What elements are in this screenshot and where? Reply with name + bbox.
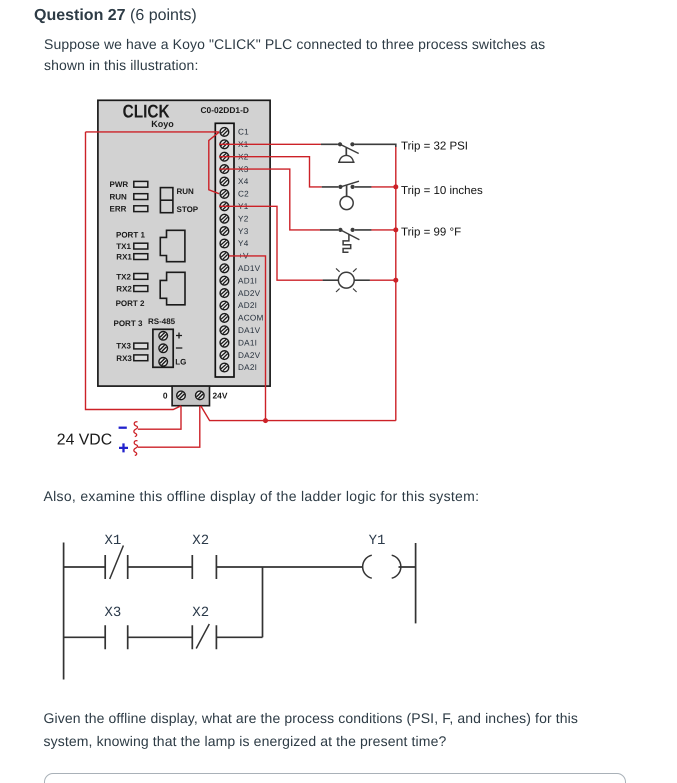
svg-text:AD2I: AD2I [238,301,257,310]
wire: +V terminal to bottom power bus [229,256,266,421]
junction dot lamp [393,278,398,283]
svg-text:DA1V: DA1V [238,326,261,335]
svg-text:RX1: RX1 [116,253,132,262]
svg-text:–: – [176,340,183,355]
branch wire joining rung 2 to rung 1 [262,567,264,637]
ladder left power rail [63,543,65,680]
contact X2 normally-open (rung 1) [192,533,216,579]
PORT 2 RJ jack with TX2/RX2 LEDs [116,272,185,308]
contact X3 normally-open [105,605,128,649]
wire: 24VDC positive lead to 24V terminal [138,406,200,447]
svg-text:24V: 24V [213,390,228,400]
RUN/STOP switch [160,187,198,214]
paragraph 1 [44,34,545,77]
24V power terminal block [163,386,228,406]
svg-text:X4: X4 [238,177,249,186]
svg-text:RUN: RUN [177,187,195,196]
wire: C1-C2 jumper bracket [209,132,219,194]
wire: level switch to rail [371,186,396,188]
PORT 1 RJ jack with TX1/RX1 LEDs [116,230,185,261]
paragraph 2 [44,488,480,504]
rung 2 wire segments [64,636,263,638]
svg-text:Y1: Y1 [369,533,386,549]
wire: temp switch to rail [371,229,396,231]
svg-text:RX3: RX3 [116,354,132,363]
contact X1 normally-closed [105,533,128,579]
svg-text:Y4: Y4 [238,239,249,248]
svg-text:AD1V: AD1V [238,264,261,273]
svg-text:0: 0 [163,390,168,400]
24VDC negative lead squiggle [134,422,138,437]
svg-text:TX3: TX3 [116,341,131,350]
PORT 3 RS-485 terminal block [114,317,187,367]
temperature switch (X3) [320,228,371,253]
question header [34,7,197,25]
svg-text:ACOM: ACOM [238,314,264,323]
svg-text:C0-02DD1-D: C0-02DD1-D [201,105,249,115]
minus polarity mark [119,427,127,429]
svg-text:ERR: ERR [110,205,127,214]
wire: X1 input [219,143,321,145]
svg-text:AD2V: AD2V [238,289,261,298]
answer box [44,773,626,783]
svg-text:X3: X3 [105,605,122,621]
svg-text:Trip = 32 PSI: Trip = 32 PSI [401,141,468,153]
PLC module body (Koyo CLICK C0-02DD1-D) [98,100,270,386]
junction dot at +V/bus [263,418,268,423]
ladder right power rail [415,543,417,623]
level switch (X2) [322,181,372,209]
svg-text:Koyo: Koyo [151,119,174,129]
svg-text:RUN: RUN [110,193,128,202]
pressure switch (X1) [321,142,396,162]
PWR LED [110,180,148,189]
ERR LED [110,205,148,214]
svg-text:STOP: STOP [177,205,199,214]
svg-text:Y2: Y2 [238,214,249,223]
svg-text:Trip = 10 inches: Trip = 10 inches [401,185,483,197]
svg-text:PORT 3: PORT 3 [114,319,143,328]
wire: X3 input [219,169,320,230]
paragraph 3 [44,707,579,752]
wire: left return to 0V terminal [86,132,182,410]
indicator lamp (Y1) [323,268,370,292]
svg-text:RS-485: RS-485 [148,317,176,326]
plus polarity mark [119,443,128,452]
svg-text:RX2: RX2 [116,285,132,294]
wire: Y1 output to lamp [219,206,323,280]
contact X2 normally-closed (rung 2) [192,605,216,649]
svg-text:PWR: PWR [110,180,129,189]
junction dot temp switch [393,227,398,232]
svg-text:AD1I: AD1I [238,276,257,285]
24VDC positive lead squiggle [134,441,138,456]
wire: 0V terminal to 24VDC negative lead [138,406,181,429]
svg-text:DA2I: DA2I [238,363,257,372]
svg-text:Y3: Y3 [238,227,249,236]
svg-text:TX1: TX1 [116,242,131,251]
svg-text:24 VDC: 24 VDC [57,431,112,448]
junction dot level switch [393,184,398,189]
svg-text:PORT 1: PORT 1 [116,231,145,240]
svg-text:LG: LG [175,358,186,367]
wire: X2 input [219,157,322,187]
RUN LED [110,193,148,202]
svg-text:TX2: TX2 [116,272,131,281]
svg-text:C2: C2 [238,190,249,199]
svg-text:Trip = 99 °F: Trip = 99 °F [401,226,461,238]
svg-text:C1: C1 [238,128,249,137]
svg-text:X2: X2 [192,605,209,621]
svg-text:X2: X2 [192,533,209,549]
wire: right supply rail [395,146,397,421]
I/O screw terminal strip [215,123,263,377]
wire: C1 common from left rail [86,131,220,133]
svg-text:DA2V: DA2V [238,351,261,360]
svg-text:X1: X1 [105,533,122,549]
output coil Y1 [363,533,401,578]
rung 1 wire segments [64,566,416,568]
wire: lamp to rail [370,279,396,281]
svg-text:DA1I: DA1I [238,338,257,347]
wire: 24V terminal to bottom power bus [201,406,396,421]
svg-text:PORT 2: PORT 2 [116,299,145,308]
